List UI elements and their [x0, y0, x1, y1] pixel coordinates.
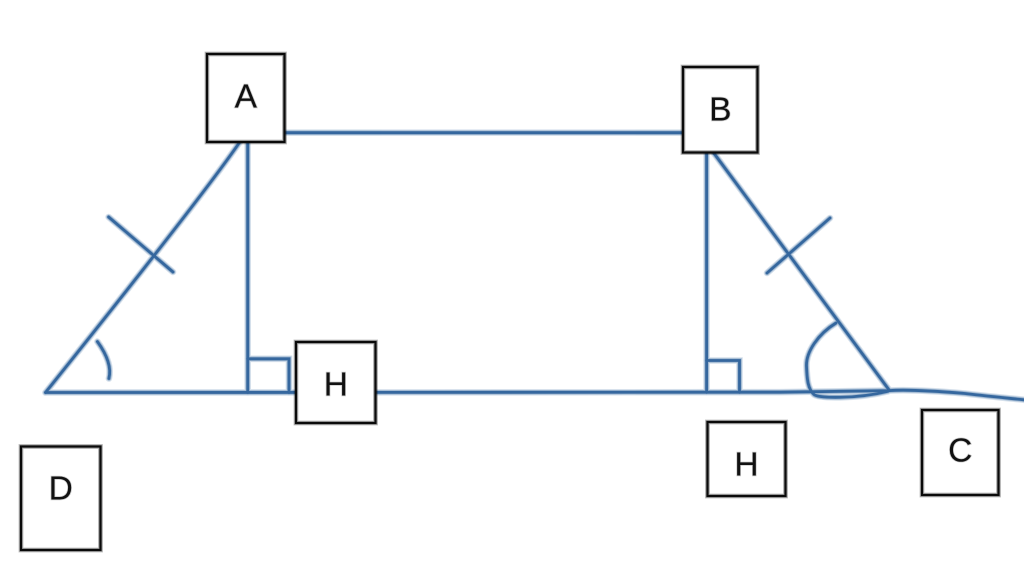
svg-text:H: H — [734, 446, 758, 483]
blue ink halo — [46, 133, 1024, 400]
svg-text:B: B — [709, 91, 731, 128]
svg-text:H: H — [324, 366, 348, 403]
label halo — [49, 78, 973, 507]
svg-text:C: C — [948, 432, 972, 469]
svg-text:A: A — [235, 78, 258, 115]
blue ink core — [46, 133, 1024, 400]
svg-text:D: D — [49, 471, 73, 508]
blue ink outer halo — [46, 133, 1024, 400]
